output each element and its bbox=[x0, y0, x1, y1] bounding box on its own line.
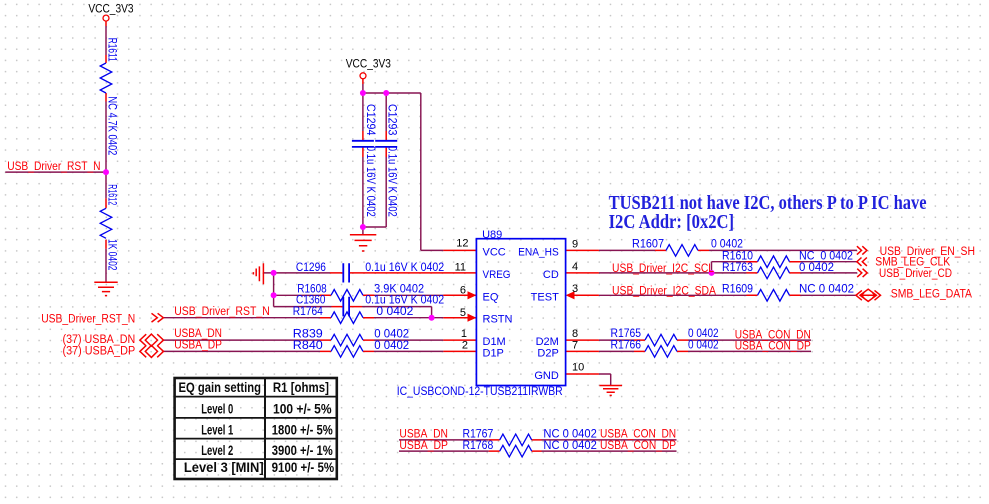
svg-text:0 0402: 0 0402 bbox=[374, 340, 409, 352]
svg-text:ENA_HS: ENA_HS bbox=[518, 246, 559, 258]
svg-text:SMB_LEG_DATA: SMB_LEG_DATA bbox=[891, 289, 972, 301]
svg-text:10: 10 bbox=[572, 362, 584, 374]
svg-text:CD: CD bbox=[543, 269, 559, 281]
svg-text:(37) USBA_DP: (37) USBA_DP bbox=[63, 345, 136, 357]
svg-text:100 +/- 5%: 100 +/- 5% bbox=[273, 401, 332, 416]
svg-text:3.9K 0402: 3.9K 0402 bbox=[374, 283, 424, 295]
svg-text:0.1u 16V K 0402: 0.1u 16V K 0402 bbox=[385, 146, 397, 217]
svg-text:IC_USBCOND-12-TUSB211IRWBR: IC_USBCOND-12-TUSB211IRWBR bbox=[397, 386, 563, 398]
svg-text:6: 6 bbox=[460, 284, 466, 296]
svg-text:USBA_CON_DN: USBA_CON_DN bbox=[600, 429, 676, 441]
svg-text:R1607: R1607 bbox=[632, 238, 664, 250]
svg-text:USB_Driver_I2C_SCL: USB_Driver_I2C_SCL bbox=[612, 263, 715, 275]
svg-text:3: 3 bbox=[572, 283, 578, 295]
svg-text:NC 4.7K 0402: NC 4.7K 0402 bbox=[105, 96, 117, 155]
svg-text:R1768: R1768 bbox=[463, 440, 494, 452]
svg-text:USB_Driver_RST_N: USB_Driver_RST_N bbox=[7, 161, 100, 173]
svg-text:USBA_DN: USBA_DN bbox=[399, 429, 448, 441]
svg-text:(37) USBA_DN: (37) USBA_DN bbox=[63, 334, 136, 346]
svg-text:D1M: D1M bbox=[483, 336, 506, 348]
svg-text:5: 5 bbox=[460, 307, 466, 319]
svg-text:USBA_CON_DP: USBA_CON_DP bbox=[600, 440, 676, 452]
svg-text:GND: GND bbox=[534, 370, 559, 382]
svg-text:USBA_DN: USBA_DN bbox=[174, 328, 222, 340]
svg-text:Level 1: Level 1 bbox=[201, 422, 233, 437]
svg-text:0 0402: 0 0402 bbox=[799, 262, 834, 274]
svg-text:R1764: R1764 bbox=[293, 306, 324, 318]
svg-text:D1P: D1P bbox=[483, 347, 504, 359]
svg-text:12: 12 bbox=[456, 238, 468, 250]
svg-text:0.1u 16V K 0402: 0.1u 16V K 0402 bbox=[365, 295, 444, 307]
svg-text:TEST: TEST bbox=[531, 291, 559, 303]
svg-text:SMB_LEG_CLK: SMB_LEG_CLK bbox=[875, 256, 950, 268]
svg-text:8: 8 bbox=[572, 328, 578, 340]
svg-text:USBA_CON_DN: USBA_CON_DN bbox=[735, 329, 811, 341]
svg-text:C1360: C1360 bbox=[296, 295, 325, 307]
svg-text:R1609: R1609 bbox=[722, 283, 753, 295]
svg-text:R1612: R1612 bbox=[105, 184, 117, 205]
svg-text:1K 0402: 1K 0402 bbox=[105, 239, 117, 271]
svg-text:0 0402: 0 0402 bbox=[688, 328, 719, 340]
svg-text:C1294: C1294 bbox=[364, 104, 376, 136]
svg-text:R1767: R1767 bbox=[463, 429, 494, 441]
svg-text:R1611: R1611 bbox=[105, 38, 117, 62]
svg-text:USBA_DP: USBA_DP bbox=[399, 440, 448, 452]
svg-text:7: 7 bbox=[572, 339, 578, 351]
svg-text:0.1u 16V K 0402: 0.1u 16V K 0402 bbox=[364, 146, 376, 217]
svg-text:R1608: R1608 bbox=[297, 283, 326, 295]
svg-text:C1293: C1293 bbox=[385, 104, 397, 135]
svg-text:0 0402: 0 0402 bbox=[711, 238, 743, 250]
svg-text:VCC: VCC bbox=[483, 246, 506, 258]
svg-text:C1296: C1296 bbox=[296, 262, 326, 274]
svg-text:R1763: R1763 bbox=[722, 262, 753, 274]
svg-text:R1610: R1610 bbox=[722, 251, 753, 263]
svg-text:USBA_CON_DP: USBA_CON_DP bbox=[735, 341, 811, 353]
svg-text:4: 4 bbox=[572, 261, 578, 273]
svg-text:Level 3 [MIN]: Level 3 [MIN] bbox=[184, 460, 264, 475]
svg-text:EQ gain setting: EQ gain setting bbox=[179, 380, 262, 395]
svg-text:0 0402: 0 0402 bbox=[374, 329, 409, 341]
svg-text:9: 9 bbox=[572, 238, 578, 250]
svg-text:0.1u 16V K 0402: 0.1u 16V K 0402 bbox=[365, 262, 444, 274]
svg-text:RSTN: RSTN bbox=[483, 314, 513, 326]
svg-text:VREG: VREG bbox=[483, 269, 511, 281]
svg-text:EQ: EQ bbox=[483, 291, 499, 303]
svg-text:Level 0: Level 0 bbox=[201, 401, 233, 416]
svg-text:R839: R839 bbox=[293, 329, 323, 341]
svg-text:9100 +/- 5%: 9100 +/- 5% bbox=[272, 460, 335, 475]
svg-text:11: 11 bbox=[455, 262, 466, 274]
svg-text:VCC_3V3: VCC_3V3 bbox=[88, 4, 133, 16]
svg-text:USBA_DP: USBA_DP bbox=[174, 339, 222, 351]
svg-text:D2P: D2P bbox=[537, 347, 558, 359]
svg-text:NC 0 0402: NC 0 0402 bbox=[543, 440, 596, 452]
svg-text:NC 0 0402: NC 0 0402 bbox=[799, 283, 854, 295]
svg-text:USB_Driver_I2C_SDA: USB_Driver_I2C_SDA bbox=[612, 286, 716, 298]
svg-text:0 0402: 0 0402 bbox=[376, 306, 413, 318]
svg-text:1: 1 bbox=[461, 328, 467, 340]
svg-text:Level 2: Level 2 bbox=[201, 443, 233, 458]
svg-text:U89: U89 bbox=[482, 229, 502, 241]
svg-text:R1 [ohms]: R1 [ohms] bbox=[273, 380, 329, 395]
svg-text:R1766: R1766 bbox=[611, 340, 642, 352]
svg-text:USB_Driver_RST_N: USB_Driver_RST_N bbox=[41, 314, 135, 326]
svg-text:D2M: D2M bbox=[536, 336, 559, 348]
svg-text:1800 +/- 5%: 1800 +/- 5% bbox=[272, 422, 333, 437]
svg-text:0 0402: 0 0402 bbox=[688, 340, 719, 352]
svg-text:NC_0 0402: NC_0 0402 bbox=[799, 251, 853, 263]
svg-text:I2C Addr: [0x2C]: I2C Addr: [0x2C] bbox=[609, 211, 735, 233]
svg-text:R840: R840 bbox=[293, 340, 323, 352]
svg-text:USB_Driver_CD: USB_Driver_CD bbox=[879, 268, 952, 280]
svg-text:VCC_3V3: VCC_3V3 bbox=[346, 59, 391, 71]
svg-text:NC 0 0402: NC 0 0402 bbox=[543, 429, 596, 441]
svg-text:3900 +/- 1%: 3900 +/- 1% bbox=[272, 443, 333, 458]
svg-text:2: 2 bbox=[462, 339, 468, 351]
svg-text:R1765: R1765 bbox=[611, 328, 642, 340]
svg-text:USB_Driver_RST_N: USB_Driver_RST_N bbox=[174, 306, 270, 318]
